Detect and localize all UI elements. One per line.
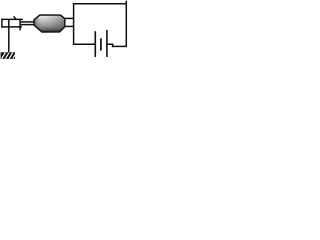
fork terminal bottom xyxy=(65,25,74,27)
neck connector top line xyxy=(21,21,35,23)
wire left vertical xyxy=(73,3,75,45)
adjuster tick on box xyxy=(14,16,17,19)
wire top xyxy=(73,3,127,5)
wire jog xyxy=(112,44,114,48)
wall mount hatch xyxy=(1,52,17,59)
transmitter box xyxy=(1,19,23,31)
wire right vertical xyxy=(125,1,127,47)
battery plate long left xyxy=(94,31,96,57)
fork terminal top xyxy=(65,17,74,19)
battery plate long right xyxy=(106,30,108,57)
neck connector bottom line xyxy=(21,24,35,26)
battery plate short middle xyxy=(100,38,102,50)
wire bottom right xyxy=(112,45,127,47)
wire battery right xyxy=(107,43,113,45)
wire battery left xyxy=(73,43,95,45)
coil body xyxy=(34,15,65,32)
support pole wire xyxy=(8,20,10,53)
